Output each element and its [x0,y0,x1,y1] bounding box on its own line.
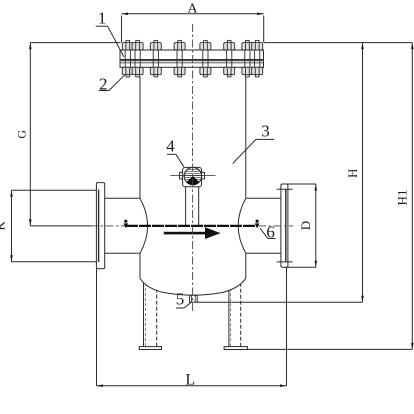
horizontal nozzle centerline left [90,225,125,227]
K extension lines [12,189,98,191]
flow line through nozzles [126,225,257,227]
left foot plate [139,347,161,350]
vessel body fill (covers leg tops) [140,67,246,295]
flow direction arrow [164,227,221,239]
svg-text:G: G [15,130,29,139]
bolt 5 [200,40,211,76]
top reference line right segment [264,42,413,44]
G bottom extension line (nozzle centerline level) [30,225,92,227]
dimension G line [29,43,32,226]
svg-text:K: K [0,221,8,231]
L extension lines [96,269,98,386]
callout 5 leader [176,307,184,309]
bolt 1 [122,40,133,76]
gauge U4 right lug [202,172,205,179]
callout 6 leader [260,228,268,238]
gauge U4 housing [183,167,202,186]
dimension D line [315,184,318,267]
dimension H1 line [411,43,414,350]
top reference line left segment [30,42,120,44]
H1 reference line from right foot to H1 dimension [246,348,412,350]
dimension A line [122,13,264,16]
gauge U4 horizontal centerline [170,175,215,177]
bolt 2 [132,40,143,76]
H reference line from drain to H dimension [197,301,362,303]
dimension H line [361,43,364,303]
top cover plate [120,50,264,60]
flow line left pin marker [123,220,128,229]
bolt 6 [224,40,235,76]
svg-text:3: 3 [261,121,270,140]
gauge U4 dial hatching [184,169,201,179]
drain fitting 5 [190,295,198,302]
bolt 7 [242,40,253,76]
right foot plate [224,347,247,350]
svg-text:H: H [345,169,360,178]
left support leg [144,282,157,347]
right flange face tick lines [277,188,293,190]
right nozzle saddle intersection curve [238,198,246,253]
gauge U4 stem [186,187,199,227]
dimension K line [10,190,13,262]
left nozzle saddle intersection curve [140,198,148,253]
svg-text:2: 2 [99,74,108,93]
svg-text:L: L [185,372,195,389]
svg-text:5: 5 [176,290,185,309]
svg-text:6: 6 [266,222,275,241]
svg-text:H1: H1 [395,190,410,206]
body flange plate [120,61,264,68]
bolt 4 [174,40,185,76]
svg-text:1: 1 [98,9,107,28]
svg-text:4: 4 [166,137,175,156]
right nozzle pipe [246,198,281,253]
gauge U4 left lug [180,172,183,179]
gauge U4 needle sector [187,176,200,185]
svg-text:D: D [298,221,313,230]
callout 3 leader [256,138,274,140]
dimension L line [97,384,287,387]
vessel shell left wall [139,77,141,199]
dimension A extension lines [121,16,123,43]
dished bottom head [140,278,246,295]
bolt 8 [252,40,263,76]
callout 1 leader [96,25,108,27]
flow line right pin marker (item 6) [255,220,260,229]
bolt 3 [150,40,161,76]
left nozzle pipe [105,198,140,253]
bolting group [122,40,262,76]
horizontal nozzle centerline right [258,225,293,227]
right support leg [229,283,241,347]
gasket line in body flange [120,62,264,64]
gauge U4 dial circle [184,167,201,184]
right nozzle flange [281,184,288,267]
vessel shell right wall [245,77,247,199]
vertical centerline [192,24,194,313]
callout 2 leader [99,90,109,92]
D extension lines [284,183,316,185]
callout 4 leader [167,153,176,155]
svg-text:A: A [187,2,198,17]
left nozzle flange [96,183,104,269]
